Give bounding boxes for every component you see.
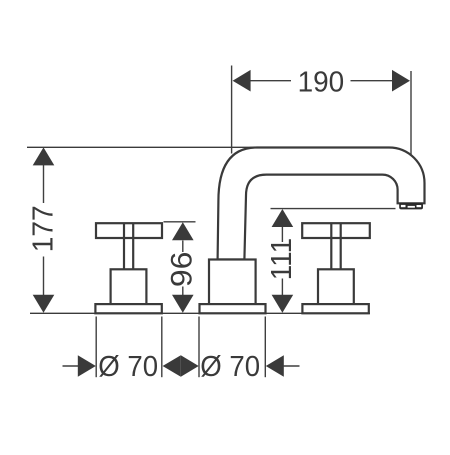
top reference line (spout height level) bbox=[27, 146, 258, 148]
left diameter extension lines bbox=[96, 317, 162, 378]
spout tube outline bbox=[218, 148, 425, 260]
svg-text:190: 190 bbox=[298, 66, 345, 98]
svg-text:Ø 70: Ø 70 bbox=[200, 351, 260, 383]
spout diameter extension lines bbox=[199, 317, 265, 378]
dimension 111 bottom arrow bbox=[272, 295, 294, 313]
svg-text:177: 177 bbox=[28, 205, 60, 252]
left handle body bbox=[111, 269, 147, 304]
left diameter tail arrow bbox=[78, 355, 96, 377]
deck / countertop line bbox=[30, 312, 370, 314]
dimension 177 top arrow bbox=[33, 147, 55, 165]
dimension 96 top arrow bbox=[172, 222, 194, 240]
dimension 177 bottom arrow bbox=[33, 295, 55, 313]
dimension 96 top extension line bbox=[164, 221, 196, 223]
right handle stem bbox=[331, 223, 340, 269]
spout diameter tail line bbox=[283, 365, 300, 367]
left handle cross bar bbox=[96, 223, 162, 238]
right handle body bbox=[318, 269, 354, 304]
middle double arrow left bbox=[163, 355, 181, 377]
spout base plate bbox=[200, 304, 266, 313]
spout diameter tail arrow bbox=[266, 355, 284, 377]
dimension 190 left arrow bbox=[233, 70, 251, 92]
left handle base plate bbox=[95, 304, 161, 313]
svg-text:Ø 70: Ø 70 bbox=[98, 351, 158, 383]
dimension 190 right arrow bbox=[392, 70, 410, 92]
right handle base plate bbox=[302, 304, 368, 313]
svg-text:111: 111 bbox=[266, 238, 298, 281]
right handle cross bar bbox=[302, 223, 370, 238]
dimension 96 line bbox=[182, 241, 184, 296]
dimension 190 extension line left bbox=[231, 66, 233, 154]
middle double arrow right bbox=[181, 355, 199, 377]
left diameter tail line bbox=[63, 365, 81, 367]
dimension 96 bottom arrow bbox=[172, 295, 194, 313]
left handle stem bbox=[124, 223, 133, 269]
dimension 177 line bbox=[43, 164, 45, 296]
svg-text:96: 96 bbox=[166, 252, 199, 288]
spout nozzle / aerator bbox=[399, 203, 423, 210]
dimension 190 extension line right bbox=[410, 71, 412, 156]
dimension 111 line bbox=[281, 227, 283, 295]
dimension 111 top arrow bbox=[272, 209, 294, 227]
dimension 190 line bbox=[249, 80, 394, 82]
spout body bbox=[209, 260, 256, 305]
dimension 111 top extension line bbox=[271, 208, 396, 210]
